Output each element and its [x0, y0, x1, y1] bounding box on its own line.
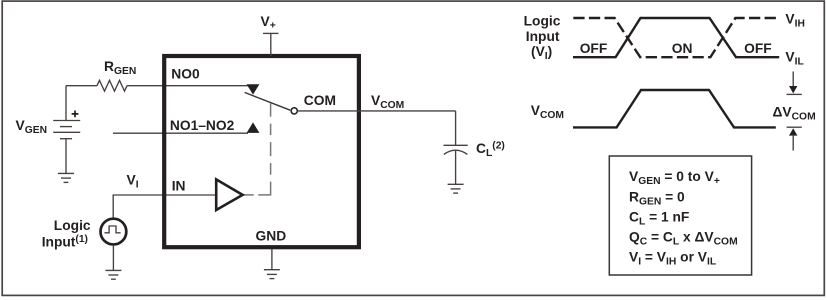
svg-text:V+: V+: [261, 14, 276, 32]
svg-text:VGEN = 0 to V+: VGEN = 0 to V+: [629, 169, 720, 187]
wire CL to ground: [455, 151, 457, 184]
wire V+: [270, 33, 272, 56]
ground logic input: [105, 270, 121, 279]
buffer driver: [216, 179, 242, 210]
svg-text:RGEN = 0: RGEN = 0: [629, 189, 685, 207]
logic waveform solid: [573, 18, 779, 57]
supply V+ bar: [263, 32, 279, 34]
svg-text:CL = 1 nF: CL = 1 nF: [629, 209, 689, 227]
delta VCOM up arrow: [789, 128, 797, 150]
wire VGEN top: [65, 86, 67, 120]
svg-text:IN: IN: [172, 179, 186, 194]
wire source to ground: [112, 245, 114, 271]
switch contact arrow NO0: [247, 84, 260, 94]
ground CL: [448, 184, 464, 193]
pulse source: [101, 219, 127, 245]
svg-text:VI = VIH or VIL: VI = VIH or VIL: [629, 250, 716, 268]
svg-text:VIH: VIH: [785, 12, 805, 30]
wire NO1-NO2: [113, 132, 248, 134]
switch pole circle COM: [291, 108, 297, 114]
VCOM waveform: [573, 90, 776, 127]
svg-text:COM: COM: [304, 93, 336, 108]
svg-text:Logic: Logic: [54, 218, 91, 233]
switch blade: [245, 92, 291, 110]
logic waveform dashed: [573, 18, 778, 57]
svg-text:VCOM: VCOM: [371, 93, 404, 111]
svg-text:Input: Input: [526, 29, 560, 44]
plus sign: [72, 111, 79, 118]
device box U1: [164, 56, 359, 247]
svg-text:(VI): (VI): [531, 44, 552, 62]
svg-text:VGEN: VGEN: [16, 118, 48, 136]
delta VCOM down arrow: [789, 72, 797, 94]
switch contact arrow NO1-NO2: [247, 122, 260, 132]
svg-text:QC = CL x ΔVCOM: QC = CL x ΔVCOM: [629, 230, 738, 248]
svg-text:ON: ON: [672, 41, 693, 56]
wire IN: [113, 195, 216, 219]
wire COM out: [297, 110, 455, 112]
ground GND pin: [264, 270, 280, 279]
wire NO0/RGEN lead: [66, 85, 248, 87]
battery VGEN: [53, 121, 80, 139]
svg-text:CL(2): CL(2): [476, 141, 505, 159]
svg-text:Input(1): Input(1): [42, 234, 88, 249]
svg-text:NO0: NO0: [171, 67, 200, 82]
pulse glyph: [105, 226, 121, 233]
conditions box: [609, 156, 751, 275]
svg-text:Logic: Logic: [524, 13, 561, 28]
svg-text:OFF: OFF: [744, 41, 772, 56]
delta VCOM upper tick: [787, 93, 802, 95]
wire GND pin: [271, 249, 273, 269]
wire to CL: [455, 111, 457, 145]
wire VGEN bottom: [65, 139, 67, 173]
svg-text:OFF: OFF: [580, 41, 608, 56]
svg-text:ΔVCOM: ΔVCOM: [773, 104, 816, 122]
svg-text:VCOM: VCOM: [531, 103, 564, 121]
svg-text:GND: GND: [256, 228, 287, 243]
svg-text:VIL: VIL: [785, 50, 803, 68]
resistor RGEN: [97, 80, 127, 91]
ground VGEN: [58, 173, 74, 182]
delta VCOM lower tick: [787, 126, 802, 128]
svg-text:NO1–NO2: NO1–NO2: [170, 118, 235, 133]
capacitor CL: [444, 145, 468, 154]
dashed actuator link: [242, 194, 271, 196]
svg-text:VI: VI: [127, 173, 139, 191]
svg-text:RGEN: RGEN: [104, 59, 136, 77]
